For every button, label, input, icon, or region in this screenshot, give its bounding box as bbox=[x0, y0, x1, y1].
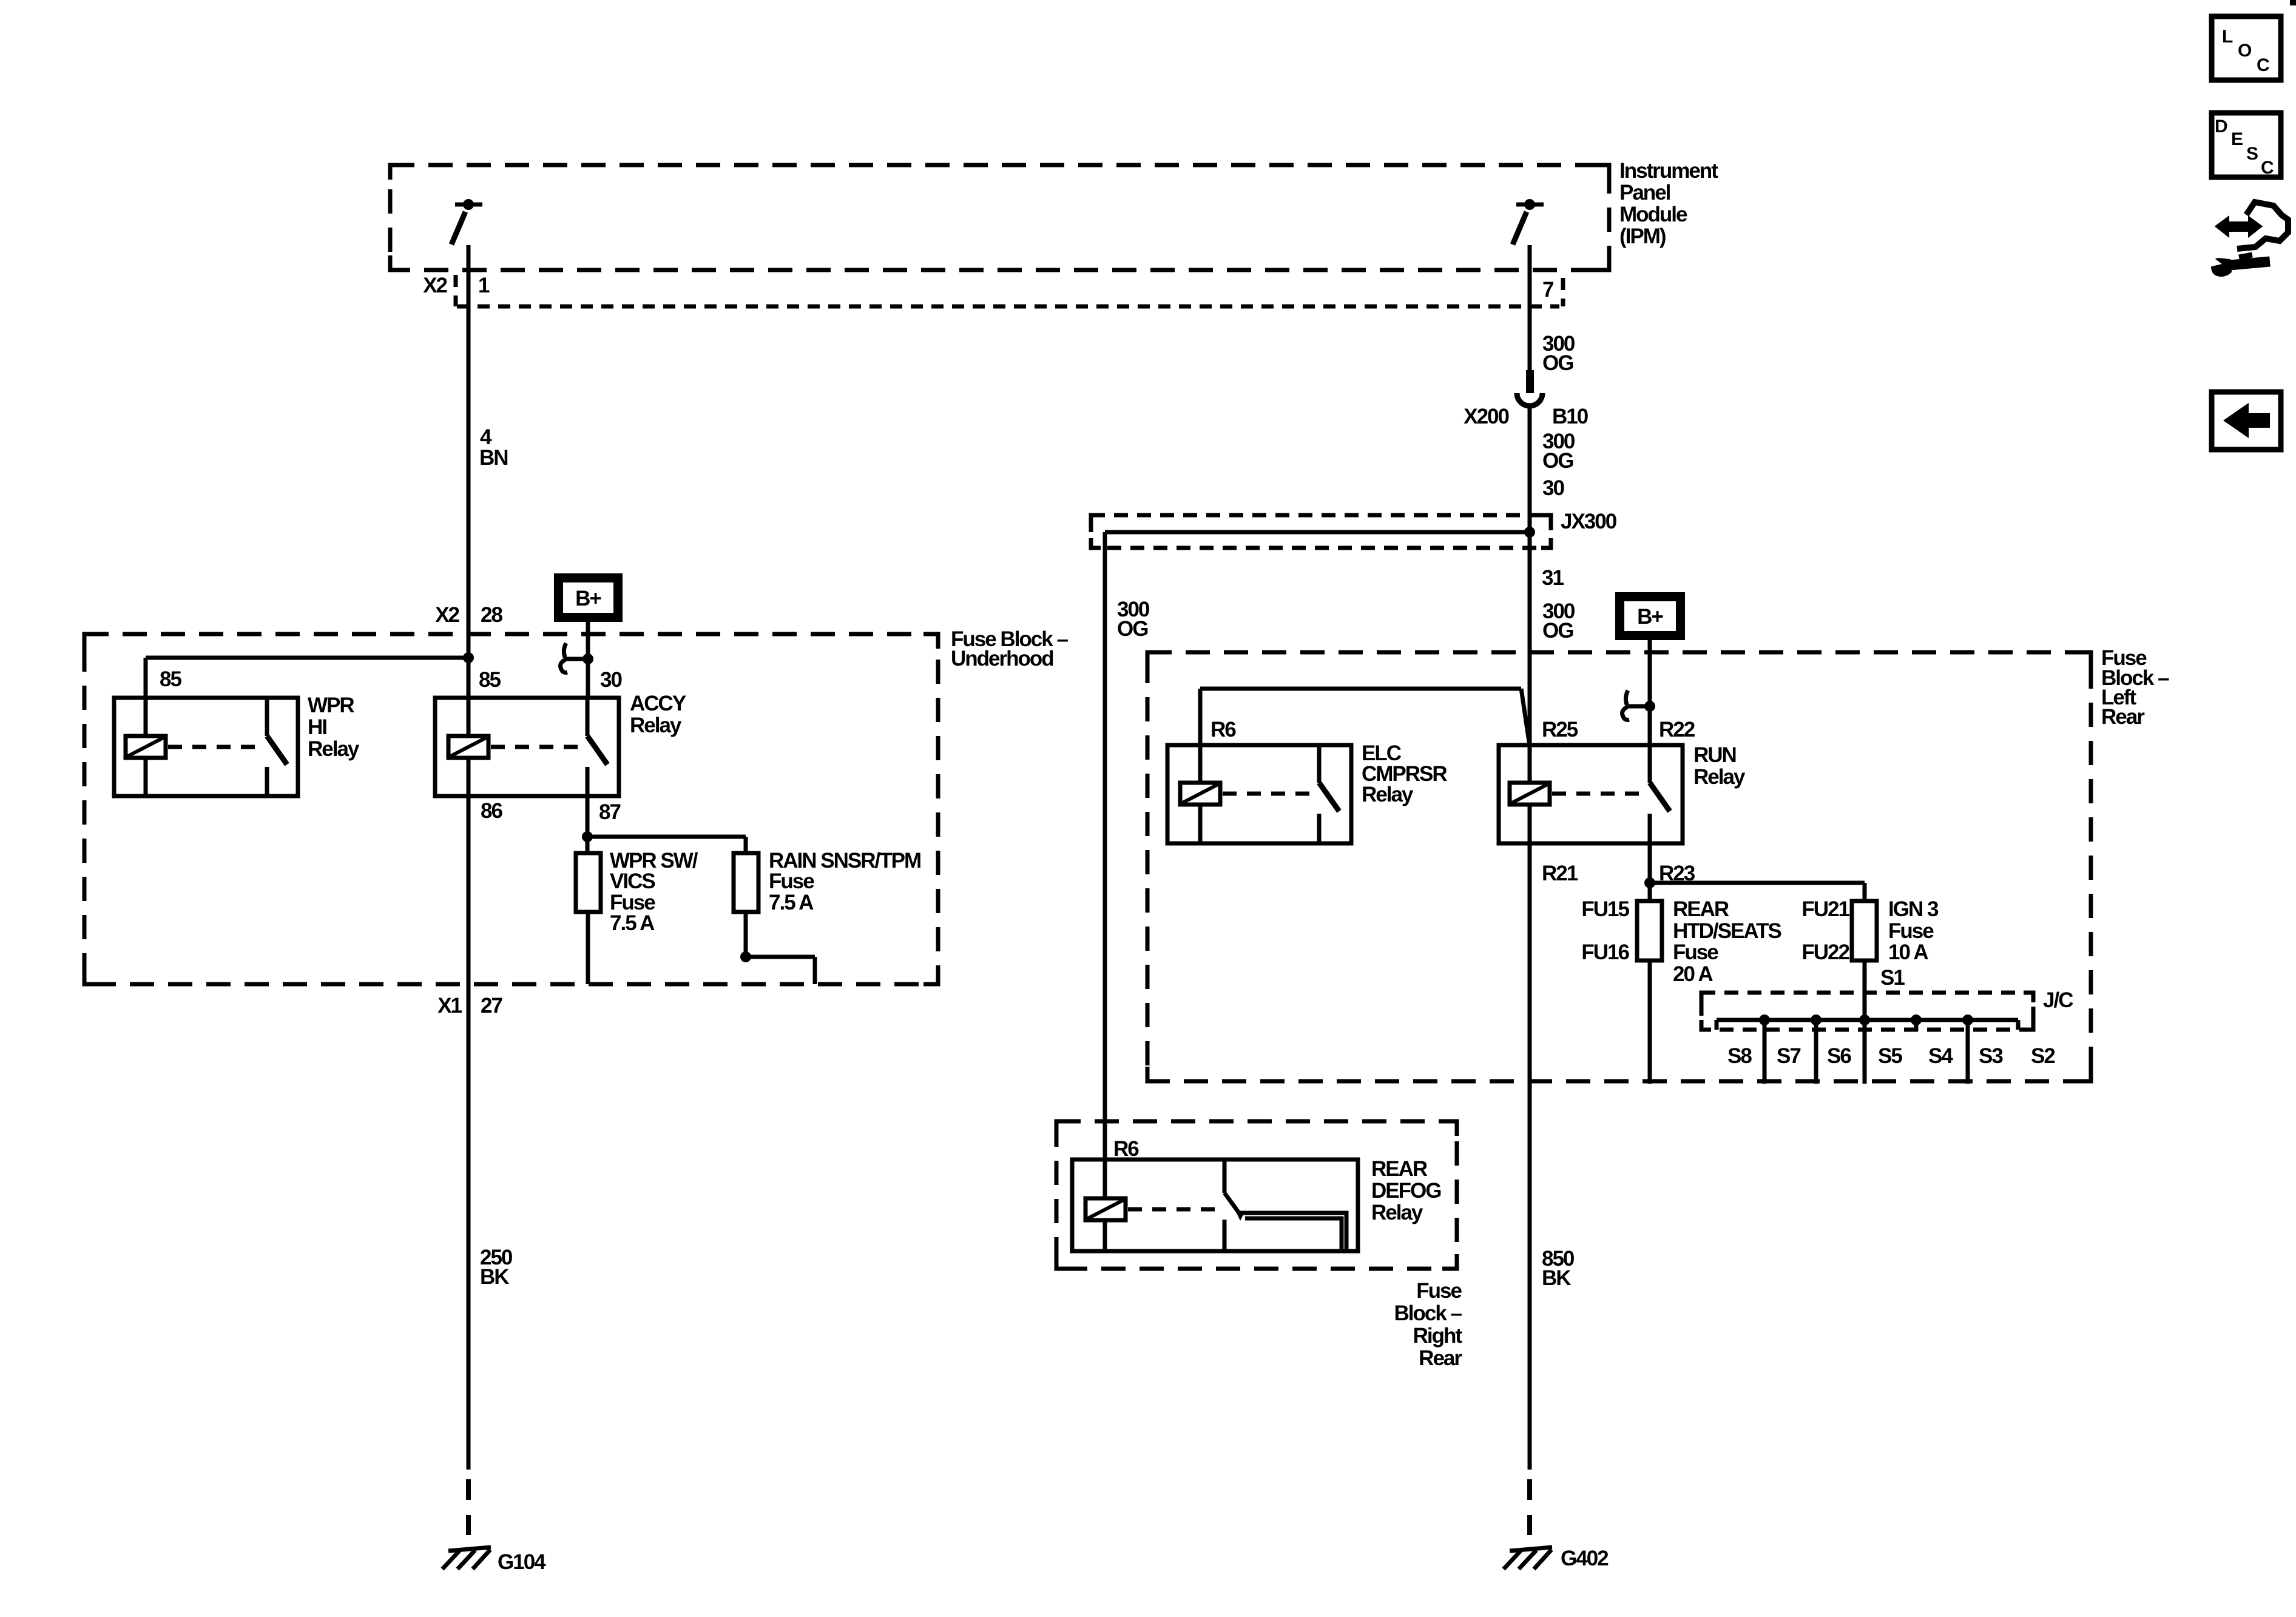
svg-text:S5: S5 bbox=[1878, 1044, 1902, 1068]
svg-text:Rear: Rear bbox=[2101, 705, 2145, 729]
svg-text:R21: R21 bbox=[1542, 862, 1578, 885]
svg-text:OG: OG bbox=[1542, 619, 1573, 643]
svg-text:IGN 3: IGN 3 bbox=[1888, 897, 1939, 921]
svg-text:VICS: VICS bbox=[610, 869, 655, 893]
svg-text:X2: X2 bbox=[423, 274, 447, 297]
svg-text:R6: R6 bbox=[1210, 718, 1236, 741]
svg-text:85: 85 bbox=[479, 668, 501, 692]
svg-text:B+: B+ bbox=[1637, 605, 1663, 629]
svg-text:31: 31 bbox=[1542, 566, 1564, 590]
svg-text:B10: B10 bbox=[1552, 405, 1589, 428]
svg-text:S: S bbox=[2246, 144, 2258, 164]
svg-text:Rear: Rear bbox=[1419, 1346, 1462, 1370]
svg-text:G402: G402 bbox=[1561, 1547, 1609, 1570]
svg-text:X200: X200 bbox=[1464, 405, 1509, 428]
svg-text:S6: S6 bbox=[1827, 1044, 1851, 1068]
svg-text:E: E bbox=[2231, 129, 2243, 149]
svg-text:Relay: Relay bbox=[1693, 765, 1746, 789]
svg-text:OG: OG bbox=[1542, 449, 1573, 473]
svg-text:FU22: FU22 bbox=[1801, 940, 1849, 964]
svg-text:S3: S3 bbox=[1979, 1044, 2003, 1068]
svg-text:OG: OG bbox=[1117, 617, 1148, 641]
svg-text:R6: R6 bbox=[1113, 1137, 1139, 1161]
svg-text:S4: S4 bbox=[1928, 1044, 1953, 1068]
svg-text:B+: B+ bbox=[575, 587, 601, 610]
svg-text:Relay: Relay bbox=[308, 737, 360, 761]
svg-text:20 A: 20 A bbox=[1673, 962, 1713, 986]
svg-text:X1: X1 bbox=[437, 994, 462, 1018]
svg-text:30: 30 bbox=[1542, 476, 1564, 500]
svg-text:FU15: FU15 bbox=[1581, 897, 1629, 921]
svg-text:Fuse: Fuse bbox=[1673, 940, 1718, 964]
svg-text:86: 86 bbox=[481, 799, 502, 823]
svg-text:BN: BN bbox=[479, 446, 508, 470]
svg-text:27: 27 bbox=[481, 994, 502, 1018]
svg-text:Fuse: Fuse bbox=[1416, 1279, 1462, 1303]
svg-text:HI: HI bbox=[308, 715, 326, 739]
svg-text:Fuse: Fuse bbox=[1888, 919, 1934, 943]
svg-text:7: 7 bbox=[1542, 278, 1553, 302]
svg-text:Module: Module bbox=[1619, 203, 1687, 226]
svg-text:BK: BK bbox=[1542, 1266, 1571, 1290]
svg-text:C: C bbox=[2261, 158, 2274, 178]
svg-text:ACCY: ACCY bbox=[630, 692, 686, 715]
svg-text:R25: R25 bbox=[1542, 718, 1578, 741]
svg-text:Relay: Relay bbox=[630, 714, 682, 737]
svg-text:REAR: REAR bbox=[1371, 1157, 1428, 1181]
svg-text:7.5 A: 7.5 A bbox=[610, 911, 655, 935]
svg-text:C: C bbox=[2257, 55, 2270, 75]
svg-text:RUN: RUN bbox=[1693, 743, 1736, 767]
svg-text:O: O bbox=[2238, 41, 2252, 61]
svg-text:Relay: Relay bbox=[1371, 1201, 1423, 1224]
svg-text:R23: R23 bbox=[1659, 862, 1695, 885]
svg-text:BK: BK bbox=[480, 1265, 509, 1289]
svg-text:FU16: FU16 bbox=[1581, 940, 1629, 964]
svg-text:S2: S2 bbox=[2031, 1044, 2055, 1068]
svg-text:FU21: FU21 bbox=[1801, 897, 1849, 921]
svg-text:REAR: REAR bbox=[1673, 897, 1729, 921]
svg-text:X2: X2 bbox=[435, 603, 459, 627]
svg-text:Block –: Block – bbox=[1394, 1301, 1462, 1325]
svg-text:Relay: Relay bbox=[1362, 783, 1414, 806]
svg-text:Fuse: Fuse bbox=[769, 869, 814, 893]
svg-text:DEFOG: DEFOG bbox=[1371, 1179, 1441, 1203]
svg-text:30: 30 bbox=[600, 668, 622, 692]
svg-text:G104: G104 bbox=[498, 1550, 546, 1574]
svg-text:87: 87 bbox=[599, 800, 620, 824]
svg-text:Right: Right bbox=[1413, 1324, 1463, 1348]
svg-text:J/C: J/C bbox=[2043, 988, 2073, 1012]
svg-text:(IPM): (IPM) bbox=[1619, 224, 1666, 248]
svg-text:JX300: JX300 bbox=[1561, 510, 1617, 533]
svg-text:WPR: WPR bbox=[308, 694, 354, 717]
svg-text:85: 85 bbox=[160, 667, 181, 691]
svg-text:OG: OG bbox=[1542, 351, 1573, 375]
svg-text:S7: S7 bbox=[1777, 1044, 1800, 1068]
svg-text:Panel: Panel bbox=[1619, 181, 1670, 204]
svg-text:7.5 A: 7.5 A bbox=[769, 891, 814, 914]
svg-text:1: 1 bbox=[478, 274, 490, 297]
svg-text:10 A: 10 A bbox=[1888, 940, 1928, 964]
svg-text:HTD/SEATS: HTD/SEATS bbox=[1673, 919, 1781, 943]
svg-text:Instrument: Instrument bbox=[1619, 159, 1718, 183]
svg-text:L: L bbox=[2222, 27, 2233, 47]
svg-text:28: 28 bbox=[481, 603, 502, 627]
svg-text:R22: R22 bbox=[1659, 718, 1695, 741]
svg-text:Underhood: Underhood bbox=[951, 647, 1053, 670]
svg-text:S1: S1 bbox=[1880, 966, 1905, 990]
svg-text:S8: S8 bbox=[1727, 1044, 1752, 1068]
svg-text:D: D bbox=[2215, 116, 2228, 137]
